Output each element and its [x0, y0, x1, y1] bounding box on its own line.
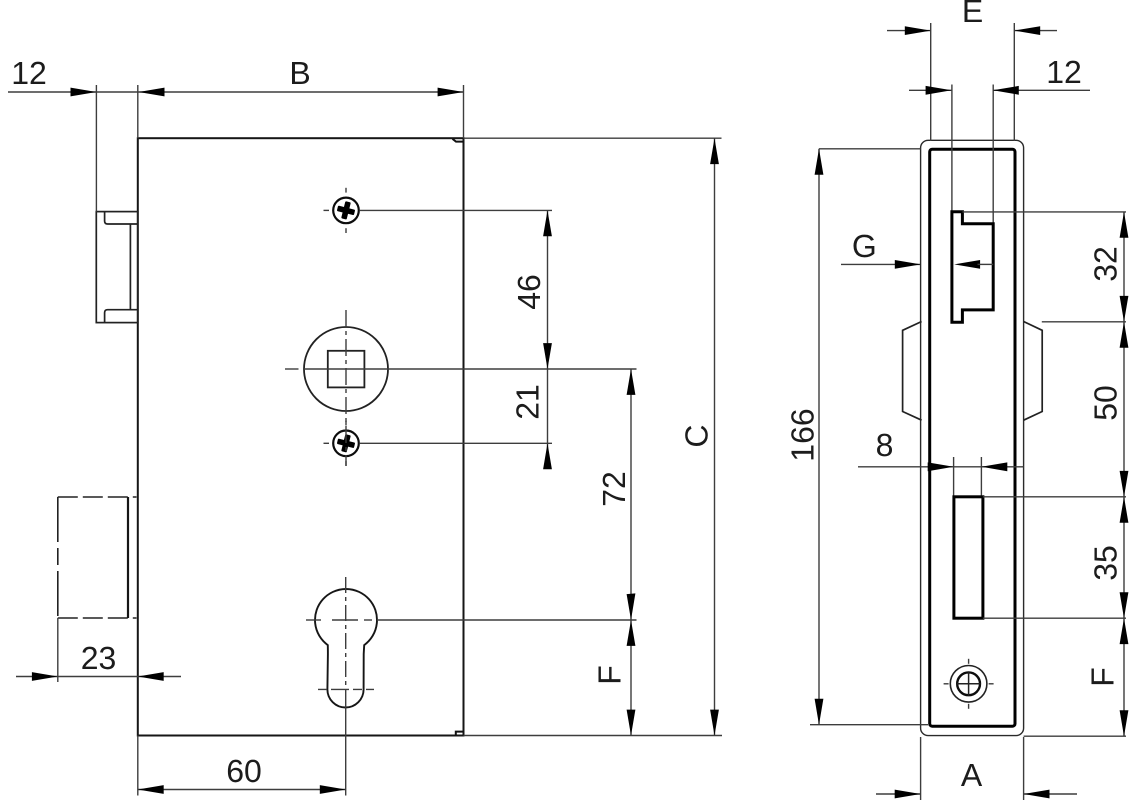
bolt face tick right (8 dim) — [980, 457, 982, 497]
bolt cutout in faceplate (thick) — [954, 497, 983, 618]
extension line A left — [920, 737, 922, 800]
svg-text:B: B — [289, 55, 310, 91]
dimension line 12 right view — [909, 89, 952, 91]
arrow 35 up — [1120, 497, 1129, 523]
arrow 32 down — [1120, 296, 1129, 322]
extension line 32/50 — [1042, 321, 1126, 323]
screw in faceplate — [944, 659, 994, 709]
arrow 60 right — [320, 785, 346, 794]
screw centerline ticks — [944, 659, 994, 709]
svg-text:G: G — [852, 228, 877, 264]
extension line 166 bottom — [810, 724, 928, 726]
right hub bulge — [1024, 322, 1043, 421]
follower (square spindle hub) — [304, 327, 388, 411]
svg-text:C: C — [679, 424, 715, 447]
dimension line F left view — [630, 620, 632, 736]
G leader line — [841, 263, 920, 265]
arrow 32 up — [1120, 212, 1129, 238]
dimension line 8 — [858, 466, 954, 468]
dimension line right stack — [1123, 212, 1125, 736]
svg-text:F: F — [1085, 667, 1121, 687]
screw bottom centerline ticks — [324, 421, 347, 466]
dead bolt (hidden, dashed) — [58, 497, 137, 618]
cylinder centre cross dashes — [306, 620, 374, 689]
arrow 60 left — [138, 785, 164, 794]
arrow 72 down — [627, 593, 636, 620]
dimension line 166 — [818, 149, 820, 725]
dimension line E — [887, 30, 931, 32]
svg-text:E: E — [962, 0, 983, 29]
extension line case right top — [463, 85, 465, 138]
extension line case bottom to C dim — [464, 735, 723, 737]
faceplate inner outline (thick) — [930, 149, 1015, 726]
arrow 23 left (outside, pointing right) — [32, 672, 58, 681]
screw top centerline ticks — [324, 188, 347, 233]
svg-text:A: A — [961, 757, 983, 793]
extension line 32 top — [962, 211, 1126, 213]
case wall line right (12 ext, through faceplate) — [992, 85, 994, 224]
arrow 50 up — [1120, 322, 1129, 348]
dimension line 72 — [630, 369, 632, 620]
arrow 46 up — [543, 210, 552, 236]
extension line bottom screw — [360, 442, 552, 444]
arrow 12 left — [926, 86, 952, 95]
arrow 8 right (pointing left) — [981, 462, 1007, 471]
arrow C down — [710, 710, 719, 736]
arrow 50 down — [1120, 471, 1129, 497]
extension line 166 top — [819, 148, 921, 150]
extension line 50/35 — [983, 496, 1126, 498]
arrow 12 right — [993, 86, 1019, 95]
arrow F up — [627, 620, 636, 646]
faceplate outer outline — [921, 140, 1024, 735]
arrow E right — [1014, 26, 1040, 35]
screw bottom — [333, 431, 359, 457]
svg-text:35: 35 — [1088, 545, 1124, 581]
lock case body outline — [138, 138, 464, 735]
extension line cylinder center to F dim — [377, 619, 637, 621]
svg-text:60: 60 — [226, 753, 262, 789]
latch bolt (top-left protrusion) outline — [96, 212, 138, 323]
follower centerline dashes left — [285, 368, 299, 370]
arrow 166 down — [815, 699, 824, 725]
svg-text:F: F — [592, 665, 628, 685]
extension line 35/F — [983, 617, 1126, 619]
vertical centerline through follower and bottom screw — [345, 310, 347, 466]
dimension line A — [876, 793, 921, 795]
lid step top-right corner — [453, 139, 464, 142]
svg-text:32: 32 — [1088, 246, 1124, 282]
arrow F2 up — [1120, 618, 1129, 644]
extension line A right — [1023, 737, 1025, 800]
svg-text:23: 23 — [81, 640, 117, 676]
screw top — [333, 198, 359, 224]
bolt face tick left (8 dim) — [953, 457, 955, 497]
extension line top screw to 46 dim — [360, 209, 552, 211]
svg-text:12: 12 — [1046, 54, 1082, 90]
extension line F bottom — [1024, 735, 1126, 737]
svg-text:12: 12 — [11, 55, 47, 91]
latch step top — [105, 212, 138, 224]
svg-text:46: 46 — [511, 274, 547, 310]
left hub bulge — [903, 322, 922, 421]
bolt front face solid line — [127, 497, 129, 618]
lid step bottom-right corner — [456, 732, 464, 736]
arrow E left — [905, 26, 931, 35]
dimension line C — [714, 138, 716, 735]
arrow 46 down / 21 top — [543, 343, 552, 369]
vertical centerline through cylinder — [345, 577, 347, 700]
extension line case left top — [137, 85, 139, 138]
arrow G at latch (pointing left) — [954, 260, 980, 269]
arrow F2 down — [1120, 710, 1129, 736]
latch shaft edge — [129, 224, 131, 310]
arrow G at faceplate (pointing right) — [895, 260, 921, 269]
arrow B-right — [438, 88, 464, 97]
case wall line left (12 ext, through faceplate) — [951, 85, 953, 212]
latch step bottom — [105, 310, 138, 323]
E extension line left — [930, 23, 932, 141]
extension line bolt left edge down — [57, 618, 59, 682]
extension line faceplate edge above latch — [95, 85, 97, 212]
arrow shared 12-right / B-left — [139, 88, 165, 97]
arrow 23 right (outside, pointing left) — [138, 672, 164, 681]
G tail line — [978, 263, 994, 265]
arrow 166 up — [815, 149, 824, 175]
dimension line 23 — [16, 676, 181, 678]
arrow F down — [627, 710, 636, 736]
arrow C up — [710, 138, 719, 164]
svg-text:166: 166 — [785, 408, 821, 461]
arrow A left — [895, 790, 921, 799]
latch cutout in faceplate (thick) — [952, 212, 993, 322]
svg-text:50: 50 — [1088, 385, 1124, 421]
arrow A right — [1024, 790, 1050, 799]
svg-text:8: 8 — [876, 427, 894, 463]
dimension line 46/21 — [547, 210, 549, 469]
dimension line 60 — [138, 789, 346, 791]
arrow 12-left — [71, 88, 97, 97]
extension line follower to 72 dim — [304, 368, 637, 370]
arrow 35 down — [1120, 592, 1129, 618]
E extension line right — [1013, 23, 1015, 141]
arrow 21 bottom (outside, pointing up) — [543, 443, 552, 469]
extension line case top to C dim — [464, 137, 722, 139]
svg-text:21: 21 — [510, 384, 546, 420]
top dimension line (12 and B) — [8, 91, 464, 93]
vertical centerline solid extension to 60 dim — [345, 700, 347, 796]
arrow 8 left (pointing right) — [928, 462, 954, 471]
euro profile cylinder hole — [315, 589, 377, 707]
arrow 72 up — [627, 369, 636, 395]
svg-text:72: 72 — [596, 471, 632, 507]
extension line case left down to 60 dim — [137, 736, 139, 796]
